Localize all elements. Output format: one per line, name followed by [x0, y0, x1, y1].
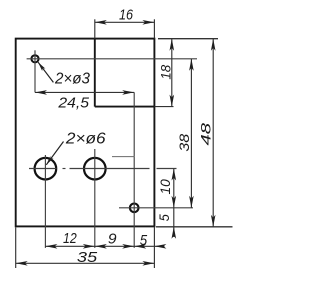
svg-text:18: 18 [157, 65, 173, 80]
svg-text:9: 9 [108, 231, 117, 248]
svg-text:38: 38 [176, 134, 192, 152]
svg-text:24,5: 24,5 [57, 95, 89, 112]
svg-text:16: 16 [119, 7, 134, 24]
svg-text:48: 48 [198, 123, 214, 146]
svg-text:10: 10 [157, 179, 173, 194]
svg-text:5: 5 [156, 214, 172, 221]
svg-text:12: 12 [63, 230, 77, 247]
svg-text:5: 5 [140, 232, 148, 249]
svg-text:2×ø3: 2×ø3 [54, 71, 90, 88]
svg-text:2×ø6: 2×ø6 [65, 131, 106, 148]
svg-text:35: 35 [77, 249, 98, 266]
